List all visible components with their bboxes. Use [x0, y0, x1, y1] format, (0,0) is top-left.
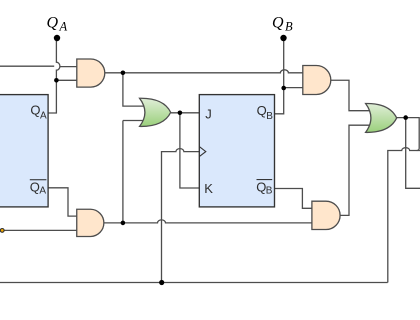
- OR gate U6 (right, green): [366, 103, 397, 132]
- wire clock riser from bus node N7 to FF2 clock (hops over J-K vertical): [162, 149, 200, 283]
- wire AND U3 output down to OR U6 top input: [331, 80, 373, 110]
- svg-text:Q: Q: [272, 15, 284, 32]
- wire AND U1 output to node N1 and UP-chain to AND U3 top input (hops over QB vertical): [105, 70, 303, 73]
- svg-text:Q: Q: [256, 180, 266, 195]
- clock input triangle FF2: [199, 147, 206, 157]
- node N2 junction dot: [121, 221, 126, 226]
- svg-text:A: A: [40, 111, 47, 122]
- wire UP enable input line into AND U1 top input (hops over QA vertical): [0, 65, 54, 67]
- wire clock bus along bottom: [0, 282, 388, 284]
- svg-text:K: K: [204, 181, 213, 196]
- wire stub node QA to AND U1 bottom input: [56, 79, 76, 81]
- node N1 junction dot: [121, 71, 126, 76]
- wire QB output vertical riser to terminal: [275, 38, 284, 114]
- wire clock branch up from bus to next stage (hops over N6 vertical): [388, 148, 420, 283]
- svg-text:Q: Q: [47, 15, 59, 32]
- flip-flop FF2 (stage B): [199, 95, 274, 207]
- wire QA output vertical riser to terminal: [48, 38, 59, 113]
- svg-text:B: B: [266, 111, 273, 122]
- OR gate U5 (middle, green): [140, 98, 171, 126]
- wire AND U2 output to node N2 and DOWN-chain to AND U4 bottom input (hops over clock riser): [104, 220, 312, 223]
- svg-text:A: A: [59, 19, 68, 33]
- terminal dot QB: [280, 35, 286, 41]
- wire notQA output to AND U2 top input: [48, 188, 76, 216]
- AND gate U4 (bottom right): [312, 201, 340, 229]
- svg-text:J: J: [205, 106, 212, 121]
- node QB junction dot: [281, 86, 286, 91]
- svg-text:Q: Q: [30, 102, 40, 117]
- node QA junction dot: [54, 78, 59, 83]
- wire node N3 down to K input of FF2: [180, 113, 199, 188]
- AND gate U3 (top right): [303, 66, 331, 95]
- wire node N6 down and right to next stage K: [406, 118, 420, 189]
- flip-flop FF1 (stage A, clipped at left): [0, 95, 48, 207]
- wire stub node QB to AND U3 bottom input: [284, 87, 303, 89]
- svg-text:B: B: [266, 186, 273, 197]
- svg-text:A: A: [39, 185, 46, 196]
- AND gate U1 (top left): [77, 59, 105, 87]
- node N6 junction dot: [403, 115, 408, 120]
- svg-text:B: B: [285, 19, 293, 33]
- wire node N2 up to OR U5 bottom input: [123, 121, 147, 223]
- wire AND U4 output up to OR U6 bottom input: [340, 125, 372, 215]
- wire notQB output to AND U4 top input: [275, 189, 312, 209]
- node N3 junction dot: [178, 111, 183, 116]
- terminal dot DOWN input (orange): [0, 229, 4, 233]
- wire OR U6 output to node N6 then right and down to next stage J: [397, 118, 420, 151]
- AND gate U2 (bottom left): [77, 209, 104, 236]
- terminal dot QA: [54, 35, 60, 41]
- wire node N1 down to OR U5 top input: [123, 73, 147, 106]
- wire DOWN enable input from terminal to AND U2 bottom input: [2, 229, 77, 231]
- node N7 clock bus junction dot: [159, 280, 164, 285]
- wire OR U5 output to node N3 and J input of FF2: [171, 112, 200, 114]
